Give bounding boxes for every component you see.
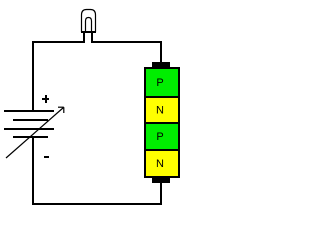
svg-text:P: P (156, 131, 163, 143)
svg-text:P: P (156, 77, 163, 89)
svg-text:N: N (156, 158, 164, 170)
svg-text:N: N (156, 105, 164, 117)
